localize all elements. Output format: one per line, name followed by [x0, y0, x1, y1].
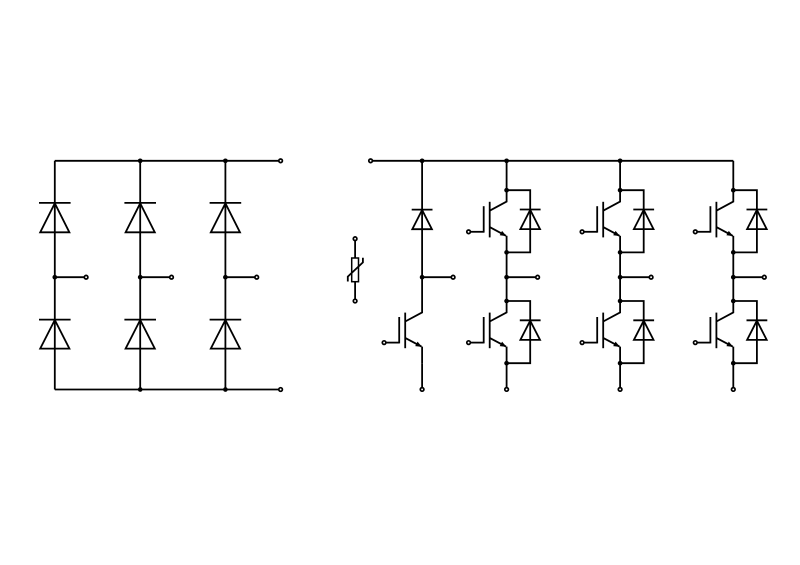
wire rectifier leg 2: [139, 161, 141, 390]
terminal chopper emitter: [420, 388, 424, 392]
terminal DC+ (rectifier): [279, 159, 283, 163]
junction phase W output node: [731, 275, 736, 280]
junction phase V output node: [618, 275, 623, 280]
terminal phase output V: [649, 275, 653, 279]
wire phase U output stub: [507, 276, 536, 278]
terminal phase output U: [536, 275, 540, 279]
wire phase V high-side diode branch: [620, 190, 644, 252]
terminal gate G1: [467, 230, 471, 234]
junction top bus / leg 3: [223, 158, 228, 163]
junction phase W high-side emitter node: [731, 250, 736, 255]
varistor RV1 body: [352, 258, 359, 282]
wire phase V midpoint link: [619, 252, 621, 301]
transistor Q2 (phase U low-side IGBT): [470, 301, 506, 363]
terminal phase V emitter: [618, 388, 622, 392]
junction bottom bus / leg 2: [138, 387, 143, 392]
terminal DC- (rectifier): [279, 388, 283, 392]
diode D1 (upper, leg 1): [39, 203, 71, 232]
wire varistor bottom lead: [354, 282, 356, 299]
junction phase U low-side collector node: [504, 299, 509, 304]
diode D2 (lower, leg 1): [39, 320, 71, 349]
diode D8 (freewheel, phase U high-side): [520, 210, 541, 230]
terminal gate G3: [580, 230, 584, 234]
wire rectifier leg 3: [224, 161, 226, 390]
terminal gate G2: [467, 341, 471, 345]
terminal brake resistor R+: [451, 275, 455, 279]
junction phase W low-side collector node: [731, 299, 736, 304]
diode D5 (upper, leg 3): [210, 203, 242, 232]
junction phase U high-side collector node: [504, 188, 509, 193]
transistor Q6 (phase W low-side IGBT): [697, 301, 733, 363]
wire phase V low-side diode branch: [620, 301, 644, 363]
wire phase U top drop: [506, 161, 508, 190]
terminal gate G5: [694, 230, 698, 234]
wire phase W low-side diode branch: [733, 301, 757, 363]
junction phase U high-side emitter node: [504, 250, 509, 255]
wire phase U low-side diode branch: [507, 301, 531, 363]
wire brake resistor stub: [422, 276, 451, 278]
junction AC node leg 2: [138, 275, 143, 280]
wire phase W bottom drop: [732, 363, 734, 387]
junction phase W low-side emitter node: [731, 361, 736, 366]
junction top bus / phase V leg: [618, 158, 623, 163]
wire DC+ top bus (rectifier): [55, 160, 279, 162]
transistor Q5 (phase W high-side IGBT): [697, 190, 733, 252]
junction phase V low-side emitter node: [618, 361, 623, 366]
transistor Q4 (phase V low-side IGBT): [584, 301, 620, 363]
terminal AC input L1: [84, 275, 88, 279]
wire phase W high-side diode branch: [733, 190, 757, 252]
transistor Q3 (phase V high-side IGBT): [584, 190, 620, 252]
terminal AC input L2: [170, 275, 174, 279]
wire phase W output stub: [733, 276, 762, 278]
junction top bus / phase U leg: [504, 158, 509, 163]
junction AC node leg 1: [52, 275, 57, 280]
terminal gate G6: [694, 341, 698, 345]
wire AC stub leg 1: [55, 276, 85, 278]
terminal phase U emitter: [505, 388, 509, 392]
wire DC+ top bus (inverter): [373, 160, 734, 162]
junction phase V high-side emitter node: [618, 250, 623, 255]
junction phase V high-side collector node: [618, 188, 623, 193]
terminal varistor top: [353, 237, 357, 241]
transistor Q1 (phase U high-side IGBT): [470, 190, 506, 252]
transistor Q7 (brake chopper IGBT): [386, 301, 422, 363]
terminal gate G4: [580, 341, 584, 345]
terminal phase output W: [763, 275, 767, 279]
diode D11 (freewheel, phase V low-side): [633, 320, 654, 340]
wire phase V top drop: [619, 161, 621, 190]
wire phase V bottom drop: [619, 363, 621, 387]
junction brake resistor node: [420, 275, 425, 280]
wire phase W top drop: [732, 161, 734, 190]
wire AC stub leg 2: [140, 276, 170, 278]
wire chopper emitter to terminal: [421, 363, 423, 387]
diode D3 (upper, leg 2): [124, 203, 156, 232]
terminal varistor bottom: [353, 299, 357, 303]
junction phase W high-side collector node: [731, 188, 736, 193]
diode D13 (freewheel, phase W low-side): [747, 320, 768, 340]
diode D9 (freewheel, phase U low-side): [520, 320, 541, 340]
wire DC- bottom bus (rectifier): [55, 389, 279, 391]
wire chopper IGBT collector: [421, 277, 423, 301]
wire varistor top lead: [354, 241, 356, 258]
diode D6 (lower, leg 3): [210, 320, 242, 349]
diode D7 (brake chopper): [412, 210, 433, 230]
terminal gate G7: [382, 341, 386, 345]
diode D4 (lower, leg 2): [124, 320, 156, 349]
junction phase V low-side collector node: [618, 299, 623, 304]
varistor RV1 diagonal: [348, 258, 363, 282]
wire phase U bottom drop: [506, 363, 508, 387]
wire phase V output stub: [620, 276, 649, 278]
diode D12 (freewheel, phase W high-side): [747, 210, 768, 230]
junction AC node leg 3: [223, 275, 228, 280]
terminal DC+ (inverter): [369, 159, 373, 163]
terminal phase W emitter: [732, 388, 736, 392]
wire AC stub leg 3: [225, 276, 255, 278]
terminal AC input L3: [255, 275, 259, 279]
wire phase W midpoint link: [732, 252, 734, 301]
junction bottom bus / leg 3: [223, 387, 228, 392]
junction phase U low-side emitter node: [504, 361, 509, 366]
diode D10 (freewheel, phase V high-side): [633, 210, 654, 230]
junction top bus / chopper leg: [420, 158, 425, 163]
junction top bus / leg 2: [138, 158, 143, 163]
junction phase U output node: [504, 275, 509, 280]
wire phase U high-side diode branch: [507, 190, 531, 252]
wire rectifier leg 1: [54, 161, 56, 390]
wire chopper leg upper: [421, 161, 423, 277]
wire phase U midpoint link: [506, 252, 508, 301]
